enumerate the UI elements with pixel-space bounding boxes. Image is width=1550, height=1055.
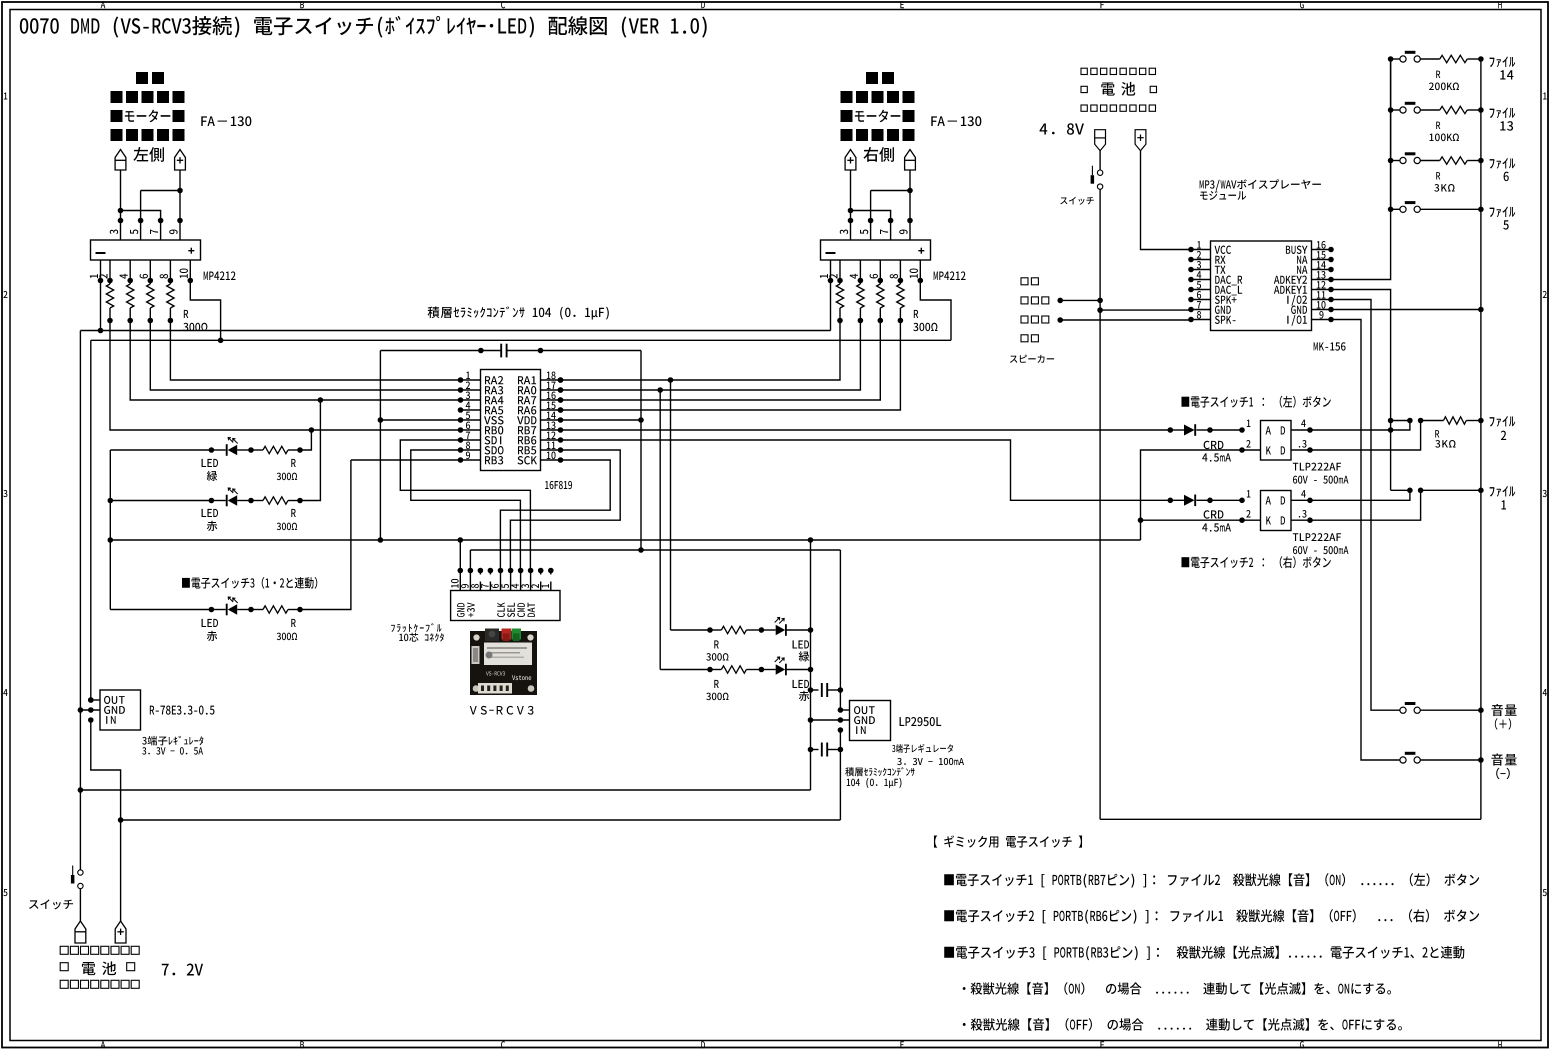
wire ADKEY1 down to file1/2 nodes: [1331, 290, 1393, 491]
label 3-terminal regulator 0.5A: [142, 736, 203, 755]
label TLP222AF (1): [1293, 463, 1349, 484]
wire TLP2 pin4 to file1 left node: [1310, 488, 1413, 501]
label file 6: [1490, 158, 1516, 181]
wire speaker- to SPK-: [1057, 317, 1191, 323]
pin labels 1 2 4 6 8 10 (U2): [90, 268, 188, 278]
pin labels 3 5 7 9 (U3): [840, 229, 908, 234]
label 16F819: [545, 481, 572, 489]
wire RB5 to SEL: [510, 450, 620, 571]
wire U3 pin2 to RA1: [558, 321, 840, 383]
switch SW1 (main power): [71, 866, 83, 889]
pushbutton SW7 (volume +): [1400, 702, 1481, 713]
wire J1 GND to bus: [459, 540, 461, 571]
label R 3K (file6): [1434, 172, 1454, 192]
node file1 row: [1391, 488, 1484, 494]
wire I/O2 to volume+ button: [1331, 300, 1400, 711]
motor M1 (left) FA-130: [111, 72, 185, 141]
wire M1 terminals to U2 pins 3,5,7,9: [118, 170, 183, 240]
wire +3.3V bus y=550: [470, 549, 840, 551]
wire U5 IN pin to 7.2V bus: [838, 727, 844, 820]
label FA-130 (right): [931, 116, 981, 126]
label electronic switch 2 (right button): [1181, 556, 1330, 568]
resistor R2 300ohm (U2 pin4): [127, 281, 134, 324]
wire TLP2 pin3 to file1 right node: [1310, 488, 1423, 521]
label MP4212 (right): [934, 271, 966, 280]
label switch SW2: [1060, 197, 1093, 205]
wire VDD pin: [561, 419, 642, 421]
wire RA0 drop to LED red rail: [659, 390, 661, 670]
pushbutton SW3 + resistor R15 200K (file14): [1391, 51, 1481, 63]
regulator U4 R-78E3.3-0.5: [100, 690, 141, 730]
photorelay U7 TLP222AF (1): [1239, 420, 1313, 460]
regulator U5 LP2950L: [850, 701, 891, 741]
pushbutton SW4 + resistor R16 100K (file13): [1391, 102, 1481, 114]
connector J1 flat cable 10pin: [451, 568, 560, 621]
label file 13: [1490, 107, 1516, 130]
resistor R12 300ohm + LED D4 green (right): [671, 618, 814, 636]
wire J1 +3V to bus: [469, 550, 471, 571]
label file 2: [1490, 416, 1516, 440]
wire U3 pin6 to RA7: [558, 321, 881, 403]
wire TLP1 pin4 to file2 left node: [1310, 418, 1413, 430]
wire U4 GND pin: [80, 707, 100, 713]
module U6 MK-156: [1188, 241, 1334, 331]
wire U3 pin1 to GND bus: [830, 281, 832, 331]
note switch1: [944, 873, 1479, 888]
wire U2 pin4 to RA4: [130, 321, 460, 403]
label file 5: [1490, 206, 1516, 229]
transistor array U2 MP4212 (left): [91, 240, 201, 260]
CRD D6 4.5mA: [1168, 424, 1243, 436]
wire LED common rail x=110: [108, 450, 114, 610]
title text: [20, 16, 707, 38]
wire SDI to DAT: [400, 440, 530, 571]
label switch SW1: [29, 899, 73, 909]
label R 3K (file2): [1435, 430, 1455, 448]
wire RB6 to CRD2: [561, 440, 1171, 500]
wire 3.3V drop to regulator OUT: [88, 340, 94, 703]
LED D1 green + resistor R9 300ohm (row RB0): [110, 430, 311, 456]
label VS-RCV3: [470, 706, 534, 715]
capacitor C3 0.1uF (IN side): [811, 743, 841, 757]
note linked OFF: [963, 1018, 1402, 1031]
transistor array U3 MP4212 (right): [821, 240, 931, 260]
node file2 row + resistor R14 3Kohm: [1391, 417, 1484, 424]
terminal 4.8V battery -: [1095, 130, 1106, 151]
photorelay U8 TLP222AF (2): [1239, 490, 1313, 530]
wire key GND bottom rail: [1100, 818, 1481, 820]
wire U3 pin4 to RA0: [558, 321, 861, 393]
label R 300 (right red): [706, 680, 728, 700]
terminal M2-: [905, 150, 916, 171]
wire U3 pin8 to RA6: [558, 321, 901, 413]
wire U2 pin8 to RA2: [170, 321, 460, 381]
resistor R3 300ohm (U2 pin6): [147, 281, 154, 324]
node 7.2V bus bottom rail: [118, 817, 841, 823]
wire 3.3V bus y=340: [91, 339, 951, 341]
pushbutton SW5 + resistor R17 3K (file6): [1391, 152, 1481, 164]
battery BT1 7.2V holder: [60, 946, 139, 988]
label FA-130 (left): [201, 116, 251, 126]
label speaker: [1010, 355, 1054, 363]
note linked ON: [963, 982, 1391, 995]
label MP3/WAV voice player module: [1200, 179, 1321, 200]
wire M2 terminals to U3 pins 3,5,7,9: [848, 170, 913, 240]
wire U2 pin2 to RB0: [110, 321, 461, 433]
resistor R13 300ohm + LED D5 red (right): [660, 657, 813, 675]
wire VDD rail (cap right): [638, 351, 644, 553]
wire RB7 to CRD1: [561, 429, 1171, 431]
wire TLP1 K to GND: [1138, 450, 1242, 523]
terminal 7.2V battery +: [115, 921, 126, 943]
resistor R7 300ohm (U3 pin6): [877, 281, 884, 324]
microcontroller U1 16F819: [458, 370, 564, 471]
pin labels 1 2 4 6 8 10 (U3): [820, 268, 918, 278]
LED D3 red + resistor R11 300ohm (row RB3): [110, 460, 351, 615]
resistor R1 300ohm (U2 pin2): [106, 281, 113, 324]
wire file-switch right rail: [1478, 56, 1484, 819]
label R-78E3.3-0.5: [150, 706, 215, 715]
label electronic switch 1 (left button): [1181, 396, 1330, 408]
wire VSS pin: [380, 419, 460, 421]
terminal 7.2V battery -: [75, 921, 86, 943]
label LED red (left): [202, 509, 218, 531]
pushbutton SW8 (volume -): [1400, 752, 1481, 763]
wire MK-156 GND to right rail: [1331, 307, 1484, 313]
terminal M2+: [845, 150, 856, 171]
wire TLP2 K to GND rail: [1141, 519, 1243, 521]
label MP4212 (left): [204, 271, 236, 280]
wire GND bus y=540: [110, 537, 1140, 543]
wire +3.3V drop x=840 to cap/OUT: [838, 550, 844, 713]
wire RA1 drop to LED green rail: [670, 380, 672, 630]
label R 100K: [1429, 122, 1459, 142]
pushbutton SW6 (file5): [1391, 201, 1481, 212]
terminal 4.8V battery +: [1135, 130, 1146, 151]
wire GND bus left drop to regulator/battery: [78, 331, 84, 922]
speaker SP1: [1021, 278, 1049, 342]
wire U2 pin1 to GND bus: [98, 281, 104, 334]
wire rail to MK-156 GND pin7: [1100, 309, 1191, 311]
label file 1: [1490, 486, 1516, 510]
label ceramic capacitor 104: [428, 306, 609, 319]
wire ADKEY2 to file-switch rail: [1331, 59, 1391, 280]
wire VSS rail (cap left): [378, 351, 384, 543]
module VS-RCV3 (photo): [470, 629, 537, 696]
note header gimmick switches: [934, 835, 1082, 847]
label file 14: [1490, 56, 1516, 79]
label CRD 4.5mA (1): [1202, 441, 1231, 462]
node GND bus to bottom rail: [80, 789, 810, 791]
wire U4 OUT pin: [88, 697, 100, 703]
label R 300 (switch3): [277, 619, 297, 640]
label CRD 4.5mA (2): [1202, 510, 1231, 531]
label R 300ohm (left bank): [183, 310, 207, 331]
label LP2950L: [900, 717, 942, 726]
wire U5 GND pin: [811, 717, 850, 723]
resistor R4 300ohm (U2 pin8): [167, 281, 174, 324]
label R 200K: [1429, 71, 1459, 91]
CRD D7 4.5mA: [1168, 495, 1243, 507]
note switch2: [944, 909, 1479, 924]
label 3-terminal regulator 100mA: [892, 744, 964, 765]
wire RB3 line: [351, 459, 461, 461]
label volume -: [1491, 754, 1516, 780]
ruler numbers left/right: [3, 93, 1547, 897]
label flat cable: [391, 623, 444, 642]
wire U2 pins to resistors: [98, 260, 193, 283]
label 4.8V: [1040, 123, 1084, 134]
capacitor C1 0.1uF (VDD-VSS): [380, 344, 641, 358]
wire file-switch left rail: [1388, 56, 1394, 212]
terminal M1-: [115, 150, 126, 171]
label LED green (left): [202, 459, 218, 481]
label LED green (right): [793, 640, 810, 661]
wire TLP1 pin3 to file2 right node: [1310, 418, 1423, 450]
wire GND bus y=330: [80, 330, 830, 332]
wire U4 IN pin to battery +: [88, 717, 121, 921]
LED D2 red + resistor R10 300ohm (row RA4): [110, 400, 320, 506]
wire I/O1 to volume- button: [1331, 320, 1400, 761]
label TLP222AF (2): [1293, 533, 1349, 554]
wire SDO to CMD: [411, 450, 521, 571]
resistor R8 300ohm (U3 pin8): [897, 281, 904, 324]
wire U2 pin6 to RA3: [150, 321, 460, 391]
capacitor C2 0.1uF (OUT side): [811, 683, 841, 697]
wire GND rail x=810 (LED common): [808, 540, 814, 790]
wire U3 pin10 to 3.3V bus: [920, 281, 951, 341]
battery BT2 4.8V holder: [1081, 68, 1157, 111]
label LED red (switch3): [202, 619, 218, 641]
wire GND bus riser to TLP K rail: [1140, 520, 1142, 540]
terminal M1+: [175, 150, 186, 171]
switch SW2 (MP3 power): [1091, 151, 1103, 190]
note switch3: [944, 946, 1464, 960]
label R 300 (right green): [706, 640, 728, 660]
label volume +: [1491, 704, 1516, 730]
label R 300ohm (right bank): [913, 310, 937, 331]
label electronic switch 3: [182, 577, 317, 589]
pin labels 3 5 7 9 (U2): [110, 229, 178, 234]
wire U5 OUT pin: [840, 709, 849, 711]
motor M2 (right) FA-130: [841, 72, 915, 141]
label MK-156: [1314, 342, 1346, 350]
wire battery- switched rail down to key GND: [1097, 189, 1103, 819]
label 7.2V: [162, 964, 203, 976]
label R 300 (LED green): [277, 459, 297, 480]
wire SCK to CLK: [500, 460, 610, 571]
label LED red (right): [793, 680, 810, 701]
wire U2 pin10 to 3.3V bus: [190, 281, 223, 344]
wire U3 pins to resistors: [828, 260, 923, 283]
resistor R5 300ohm (U3 pin2): [836, 281, 843, 324]
label 左側: [133, 147, 164, 162]
resistor R6 300ohm (U3 pin4): [857, 281, 864, 324]
label ceramic capacitor 104 (bottom): [845, 767, 914, 788]
label R 300 (LED red): [277, 509, 297, 530]
wire speaker+ to switched rail: [1057, 298, 1100, 304]
label 右側: [863, 147, 894, 162]
wire battery+ to VCC: [1141, 151, 1192, 250]
